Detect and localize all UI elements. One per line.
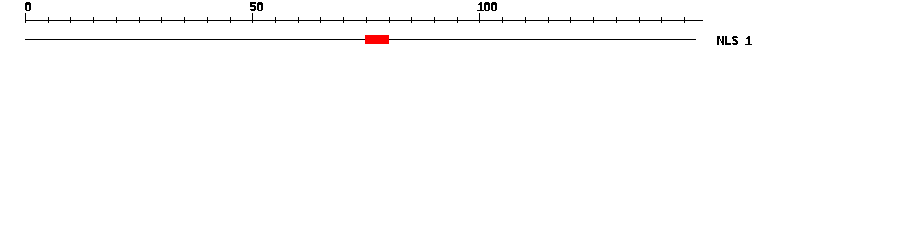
label NLS 1 [717,36,752,45]
ruler label 100 [477,2,497,11]
ruler label 0 [25,2,31,11]
major tick 50 [252,13,253,23]
major tick 0 [25,13,26,23]
feature box NLS 1 (red) [365,35,389,44]
minor ticks every 5 units [48,17,685,23]
major tick 100 [479,13,480,23]
background [0,0,900,58]
feature baseline wire [25,39,696,40]
ruler label 50 [250,2,263,11]
ruler main line [25,20,703,21]
